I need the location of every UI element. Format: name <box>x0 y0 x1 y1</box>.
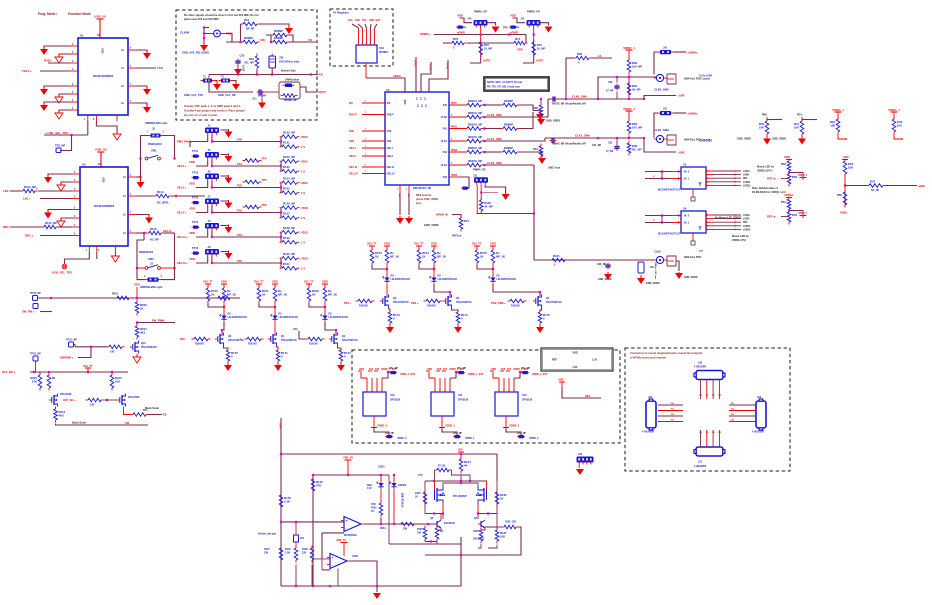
svg-text:J10: J10 <box>578 453 583 456</box>
wire d21 down <box>393 489 395 520</box>
label BNL rot <box>401 493 404 508</box>
svg-text:R88NP: R88NP <box>504 123 513 127</box>
net GND_SEL_TPS <box>52 271 72 275</box>
label CLK2 <box>654 250 661 254</box>
svg-text:LB0: LB0 <box>3 189 9 193</box>
svg-text:VDDD_1: VDDD_1 <box>798 212 808 215</box>
svg-text:REF: REF <box>585 394 591 398</box>
label creg1b <box>453 433 475 440</box>
junction field CLK1 <box>483 140 485 142</box>
junction div0 mid <box>788 171 790 173</box>
J21 pin3 label <box>718 432 721 434</box>
resistor R205 <box>107 345 125 349</box>
svg-text:R160XX: R160XX <box>195 343 204 346</box>
net REF div0 <box>767 177 776 181</box>
wire U5 out4 <box>713 184 741 186</box>
wire U1 pin4 <box>40 70 70 72</box>
junction field CLK2 <box>483 164 485 166</box>
U4 right pin CLK0 <box>441 115 467 119</box>
wire SW2 right lead <box>160 267 174 269</box>
U6 out0 mark <box>734 214 736 216</box>
junction U5 in0 <box>661 170 663 172</box>
ground u1 <box>274 363 282 372</box>
svg-text:TPS: TPS <box>262 156 267 160</box>
J20 pin3 <box>718 380 720 400</box>
wire U2 out4 right <box>164 232 175 234</box>
wire pu1 foot <box>894 135 902 140</box>
wire tp21 <box>74 345 76 347</box>
U4 left pin SEL0 <box>362 154 394 158</box>
J23 pin3 label <box>731 420 735 422</box>
svg-text:R161XX: R161XX <box>248 343 257 346</box>
svg-text:1A: 1A <box>121 85 124 88</box>
wire row4 arrow stem <box>221 226 229 227</box>
net OSCI rot <box>414 60 417 67</box>
net P33 g3 <box>344 301 352 305</box>
power 3V3_TT u4 <box>414 242 424 246</box>
junction U2 out4 <box>143 232 145 234</box>
svg-text:NTA4153NT1G: NTA4153NT1G <box>393 301 409 304</box>
U3 pin2 bend <box>358 24 363 28</box>
wire ladder top <box>30 371 128 373</box>
ground C21 <box>258 100 266 109</box>
resistor Rs3 <box>388 310 400 326</box>
regulator U3 body <box>356 45 377 63</box>
resistor Rnet0a <box>781 159 791 174</box>
power bar lad <box>85 368 91 372</box>
net CLK0_SMA wire <box>572 95 587 99</box>
resistor Rnet0b <box>787 172 797 187</box>
junction u4 join <box>433 268 435 270</box>
svg-text:10K: 10K <box>90 404 95 407</box>
svg-text:P30: P30 <box>387 130 392 133</box>
note clk1 res <box>552 143 586 146</box>
junction mr b <box>442 512 444 514</box>
wire q7 col <box>477 514 479 520</box>
svg-text:10K: 10K <box>32 380 37 384</box>
svg-text:TP13: TP13 <box>192 196 199 200</box>
note buf3 <box>715 217 742 220</box>
connector J20 label <box>694 362 706 369</box>
svg-text:pull at GND_VDDD: pull at GND_VDDD <box>416 198 438 201</box>
svg-text:VDD: VDD <box>102 177 106 183</box>
svg-text:USB_5V: USB_5V <box>95 148 107 152</box>
label Rg1 <box>248 343 257 346</box>
U5 refdes <box>683 163 687 167</box>
wire unit0 right <box>487 23 496 26</box>
resistor R57 fr <box>867 180 886 188</box>
wire U1 pin to gnd3 <box>44 102 70 104</box>
resistor R148 <box>279 493 291 510</box>
wire s feed <box>78 347 91 358</box>
junction CLKIN c <box>203 37 205 39</box>
svg-text:NP_1K: NP_1K <box>278 293 287 297</box>
wire r138 foot <box>311 565 313 587</box>
power bar fr <box>842 159 848 161</box>
wire clk bus <box>209 74 318 76</box>
no-connect U2 pinC <box>111 253 119 263</box>
wire u5 led-fet <box>493 284 540 296</box>
jumper J50 <box>658 47 674 55</box>
wire q20 gate <box>434 481 436 490</box>
svg-text:TP14: TP14 <box>192 220 199 224</box>
svg-text:VDD: VDD <box>558 378 564 382</box>
U6 out pin3 <box>706 225 713 227</box>
svg-text:10_NP: 10_NP <box>537 47 546 51</box>
svg-text:R160: R160 <box>371 508 377 510</box>
svg-text:P30: P30 <box>180 337 185 341</box>
wire U6 out4 <box>713 228 741 230</box>
power VDD div1 <box>784 193 794 197</box>
label gnd y3 <box>646 282 660 285</box>
wire fb to R60 <box>224 34 241 43</box>
svg-text:VDD: VDD <box>221 280 227 284</box>
svg-text:R126_NP: R126_NP <box>283 202 295 206</box>
U11 label <box>458 394 469 402</box>
U3 output down <box>365 63 367 78</box>
junction pf pwr <box>460 453 462 455</box>
power VDD u5 <box>490 242 496 246</box>
svg-text:R65NP_NP: R65NP_NP <box>284 99 297 102</box>
wire pair0 vert <box>280 137 282 147</box>
svg-text:CLKx LVDS: CLKx LVDS <box>699 140 713 143</box>
testpoint TP22 <box>33 304 38 309</box>
label JP1 refdes <box>521 18 526 21</box>
svg-text:GND_VDDD: GND_VDDD <box>646 282 660 285</box>
svg-text:22K: 22K <box>264 552 269 555</box>
svg-text:R89NP: R89NP <box>504 146 513 150</box>
junction row2 <box>211 186 213 188</box>
svg-text:VD33: VD33 <box>301 135 308 139</box>
svg-text:1K: 1K <box>422 255 426 259</box>
wire clk1 tail <box>644 138 676 152</box>
junction pf b <box>460 480 462 482</box>
note buf1 <box>757 166 774 173</box>
svg-text:3V3_TT: 3V3_TT <box>367 242 377 246</box>
wire clk1 from field <box>544 138 546 141</box>
wire div0 out <box>789 173 803 178</box>
svg-text:VDDD_1: VDDD_1 <box>465 437 475 440</box>
component Y3 osc <box>638 262 655 273</box>
wire bottom rail <box>281 585 461 587</box>
svg-text:VD33: VD33 <box>301 181 308 185</box>
wire u5 drop <box>492 266 494 278</box>
net r95 out <box>598 54 601 58</box>
transistor Q21 pfet <box>476 486 486 504</box>
label R160 <box>371 504 377 513</box>
svg-text:PWRX_UP: PWRX_UP <box>474 10 487 14</box>
wire J10 gnd <box>578 465 580 469</box>
svg-text:CPx_NP: CPx_NP <box>521 368 530 370</box>
wire U1 pin to nc3 <box>59 110 70 112</box>
wire fr out2 <box>886 185 918 187</box>
wire pair5 vert <box>280 258 282 268</box>
testpoint J31 tp <box>461 187 468 189</box>
svg-text:J50: J50 <box>663 47 668 50</box>
junction pf mid <box>460 482 462 484</box>
connector J4 3-pin header <box>206 128 219 135</box>
J23 pin1 label <box>731 409 735 411</box>
capacitor C20 <box>235 54 244 73</box>
resistor R166 <box>502 525 519 529</box>
wire pair3 vert <box>280 208 282 218</box>
label Q10 <box>141 342 157 349</box>
resistor R203 <box>135 300 147 316</box>
svg-text:VDD: VDD <box>189 182 195 186</box>
wire c40 top <box>295 522 297 530</box>
label sma style 2 <box>684 256 701 259</box>
ground j31 <box>502 193 510 200</box>
net VDDD_2 <box>509 424 520 428</box>
svg-text:CPx_NP: CPx_NP <box>389 368 398 370</box>
svg-text:VIN: VIN <box>260 38 265 42</box>
U12 pin2 up <box>508 378 510 392</box>
wire u4 join <box>419 266 434 270</box>
net SEL4 <box>177 211 187 215</box>
junction R63 <box>270 41 272 43</box>
svg-text:R81XX_NP: R81XX_NP <box>468 135 482 139</box>
net V4 up <box>301 230 308 234</box>
svg-text:CLK1_SMA: CLK1_SMA <box>487 137 502 141</box>
wire inner left rail <box>312 475 314 586</box>
wire q21 drain top <box>469 483 478 486</box>
svg-text:SEL11: SEL11 <box>163 229 172 233</box>
junction j31 <box>480 192 482 194</box>
wire row0 bus <box>212 135 281 142</box>
svg-text:LELEDMTGXXXX: LELEDMTGXXXX <box>391 278 411 281</box>
label D1 <box>279 313 299 320</box>
svg-text:ROUT: ROUT <box>387 114 394 117</box>
power 3V3_TT lad <box>83 364 93 368</box>
wire row1 arrow stem <box>221 155 229 156</box>
ground U2 out3 <box>145 214 153 224</box>
label R201 <box>112 293 119 296</box>
ground U1-9 <box>143 104 151 114</box>
svg-text:1A: 1A <box>121 49 124 52</box>
wire pwm out <box>137 322 175 324</box>
wire j31 center pin <box>480 185 482 200</box>
net CLK2 name <box>487 161 502 165</box>
power bars u1 <box>256 284 278 288</box>
U6 out3 mark <box>734 225 736 227</box>
svg-text:LVDS3: LVDS3 <box>743 229 751 231</box>
svg-text:U33: U33 <box>379 46 384 50</box>
net XTALIN rot <box>446 63 449 70</box>
power 3V3_TT u1 <box>254 280 264 284</box>
svg-text:IN_0: IN_0 <box>684 171 690 174</box>
svg-text:NP_1K: NP_1K <box>390 255 399 259</box>
wire q5 base <box>434 523 437 525</box>
wire tp23 stem <box>35 361 37 372</box>
resistor R96 gnd <box>533 103 543 118</box>
svg-text:VDD: VDD <box>189 207 195 211</box>
connector J7 3-pin header <box>206 199 219 206</box>
resistor Rled2b <box>323 286 337 304</box>
resistor R168 <box>479 528 483 544</box>
svg-text:J21: J21 <box>698 461 703 464</box>
svg-text:CLK1_SMA: CLK1_SMA <box>654 128 669 132</box>
svg-text:0.1UF: 0.1UF <box>242 65 245 72</box>
jumper J2 style note <box>145 121 168 125</box>
connector J23 <box>756 399 766 430</box>
junction c30 a <box>616 76 618 78</box>
svg-text:TPS: TPS <box>503 27 508 30</box>
capacitor Cclk1 <box>606 142 620 154</box>
svg-text:GATE: GATE <box>483 59 490 63</box>
resistor Rled4a <box>417 248 429 266</box>
svg-text:U5: U5 <box>683 163 687 167</box>
svg-text:LELEDMTGXXXX: LELEDMTGXXXX <box>329 316 349 319</box>
wire unit1 bottom <box>523 58 534 63</box>
wire y544 <box>389 543 437 545</box>
transistor Q7 <box>478 520 485 528</box>
svg-text:GND_AVS_FBI LGND1: GND_AVS_FBI LGND1 <box>182 51 210 55</box>
junction r160 <box>380 523 382 525</box>
component Y1 osc <box>269 54 276 71</box>
svg-text:1K: 1K <box>371 511 374 513</box>
resistor Rled0a <box>206 286 218 304</box>
svg-text:VDD: VDD <box>101 48 105 54</box>
power VDDD_1 div0 <box>800 178 807 181</box>
label R169 <box>438 466 446 468</box>
net P30 left <box>349 129 354 133</box>
power bars u3 <box>369 246 390 250</box>
resistor Rled3b <box>385 248 399 266</box>
wire mid vert2 <box>393 520 395 524</box>
junction field P41 <box>483 127 485 129</box>
svg-text:47_NP: 47_NP <box>606 150 614 153</box>
svg-text:4K: 4K <box>464 464 468 468</box>
ground CLKIN <box>200 42 208 52</box>
field extra labels <box>452 101 458 177</box>
label Q5 <box>546 297 562 304</box>
svg-text:1K: 1K <box>480 255 484 259</box>
junction U6 in0 <box>661 214 663 216</box>
svg-text:VDDD_1: VDDD_1 <box>623 46 635 50</box>
svg-text:47_NP: 47_NP <box>606 90 614 93</box>
svg-text:OSC0: OSC0 <box>429 64 432 71</box>
label sma style 0 <box>684 78 711 81</box>
note box frame <box>484 77 549 91</box>
svg-text:SPX3819: SPX3819 <box>390 399 401 402</box>
transistor Q1 <box>268 333 277 346</box>
junction u0 bend <box>221 329 223 331</box>
svg-text:J22: J22 <box>648 396 653 399</box>
wire r169 l <box>434 470 436 481</box>
wire U5 out1 <box>713 174 741 176</box>
label PWR4_UP <box>473 168 486 172</box>
svg-text:R162XX: R162XX <box>309 343 318 346</box>
svg-text:1.8V: 1.8V <box>367 488 372 490</box>
svg-text:1 S: 1 S <box>301 266 305 270</box>
wire oa2 fb <box>312 585 314 587</box>
ground T2 <box>232 82 240 90</box>
wire div1 out <box>789 211 803 216</box>
J23 pin0 label <box>731 403 735 405</box>
power VDDD_1 pu0 <box>832 108 844 115</box>
wire oa2 in2 vert <box>321 558 323 570</box>
svg-text:RX: RX <box>387 102 391 105</box>
resistor Rf2b <box>501 123 520 131</box>
svg-text:VDD: VDD <box>322 280 328 284</box>
svg-text:J23: J23 <box>757 396 762 399</box>
junction reg0 <box>387 371 389 373</box>
svg-text:R60NP: R60NP <box>244 36 253 40</box>
resistor R56 fr <box>837 190 847 208</box>
svg-text:NP_1K: NP_1K <box>437 255 446 259</box>
U11 pin bends2 <box>450 372 456 378</box>
ground U4 a <box>396 216 404 224</box>
svg-text:+: + <box>332 556 334 560</box>
wire U5 out3 <box>713 181 741 183</box>
R70 val <box>453 47 455 50</box>
svg-text:PB1: PB1 <box>452 124 458 128</box>
J20 pin3 label <box>718 395 721 397</box>
label U6 style <box>658 233 681 236</box>
wire R70 left <box>443 42 450 44</box>
svg-text:SEL13 «: SEL13 « <box>177 235 188 239</box>
wire c31 hang <box>616 138 618 145</box>
svg-text:OFF_W1 »: OFF_W1 » <box>63 398 76 402</box>
resistor Rled2a <box>307 286 319 304</box>
power bar vddreg <box>559 381 565 383</box>
power bars reg0 <box>358 370 378 372</box>
U11 pin3 num <box>449 389 451 392</box>
wire U5 in1 <box>645 178 672 180</box>
svg-text:PWRX_UP: PWRX_UP <box>527 10 540 14</box>
svg-text:P30: P30 <box>237 137 242 141</box>
resistor R202 <box>216 296 233 300</box>
svg-text:R112_NP: R112_NP <box>24 185 36 189</box>
junction d21 <box>393 523 395 525</box>
resistor R133 mid <box>243 205 262 209</box>
wire pf right vert <box>496 481 498 514</box>
svg-text:U2: U2 <box>82 163 86 167</box>
svg-text:TP12: TP12 <box>192 171 199 175</box>
svg-text:5V0: 5V0 <box>362 19 367 22</box>
pin pu1 <box>901 138 903 140</box>
svg-text:Bottom side pad: Bottom side pad <box>258 533 277 536</box>
wire pair1 vert <box>280 161 282 171</box>
svg-text:R128_NP: R128_NP <box>283 226 295 230</box>
svg-text:R1: R1 <box>52 376 56 380</box>
U12 out <box>505 416 507 424</box>
power VDD unit1 <box>510 14 516 18</box>
wire U2 bottom route <box>65 252 90 264</box>
connector J6 refdes <box>208 170 211 174</box>
wire pf mid link <box>452 482 469 484</box>
svg-text:S32: S32 <box>349 139 354 143</box>
junction br b <box>312 585 314 587</box>
svg-text:LED1: LED1 <box>378 465 385 469</box>
jumper J51 <box>658 108 674 116</box>
wire jumper1 drop <box>654 113 658 135</box>
svg-text:Note: Default value of: Note: Default value of <box>752 187 778 190</box>
U5 inside <box>684 171 702 189</box>
wire fr mid <box>844 174 846 207</box>
wire r146 foot <box>295 565 297 587</box>
power VDDD_1 div1 <box>800 216 807 219</box>
label Q3 <box>393 297 409 304</box>
dashed box CLKIN <box>176 10 317 120</box>
ground R61 <box>285 26 293 34</box>
svg-text:No Mount LED VDDD2: No Mount LED VDDD2 <box>715 217 742 220</box>
net GATE1 <box>536 59 543 63</box>
svg-text:C20: C20 <box>240 54 245 58</box>
wire R63 out <box>293 41 316 43</box>
net P32 g2 <box>293 327 298 331</box>
wire parts to bus1 <box>237 65 239 75</box>
